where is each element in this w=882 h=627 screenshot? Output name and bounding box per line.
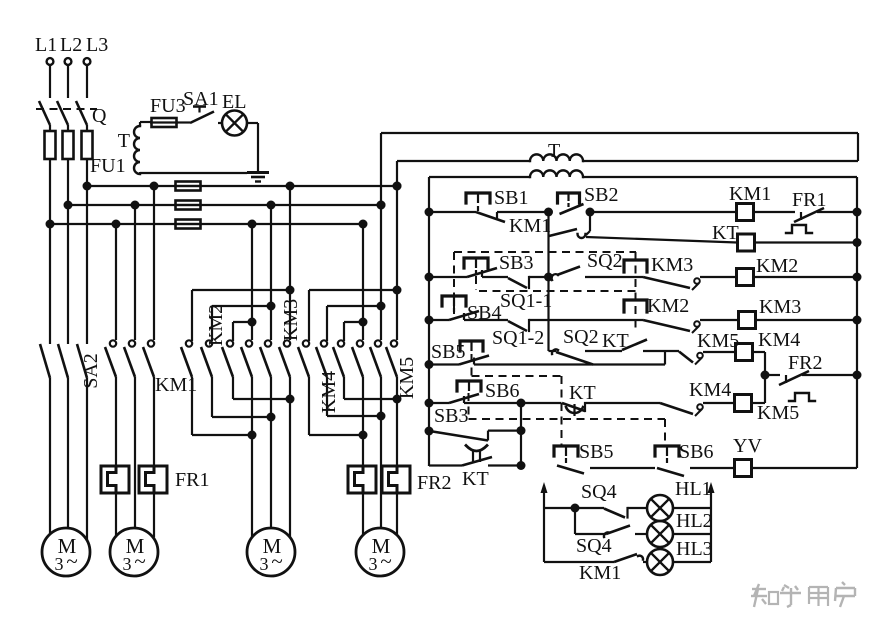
svg-text:T: T (118, 130, 130, 152)
svg-text:KM3: KM3 (651, 254, 693, 276)
svg-text:SA1: SA1 (183, 88, 219, 110)
svg-text:KM5: KM5 (757, 402, 799, 424)
svg-text:L1: L1 (35, 34, 57, 56)
svg-text:~: ~ (66, 549, 77, 573)
svg-text:SB1: SB1 (494, 187, 528, 209)
svg-text:SQ4: SQ4 (581, 481, 617, 503)
svg-text:KM2: KM2 (205, 304, 227, 346)
svg-text:KT: KT (462, 468, 489, 490)
svg-text:FU3: FU3 (150, 95, 186, 117)
svg-text:KM3: KM3 (759, 296, 801, 318)
svg-text:FU1: FU1 (90, 155, 126, 177)
svg-text:3: 3 (369, 554, 378, 574)
svg-text:SB6: SB6 (679, 441, 713, 463)
svg-text:KM4: KM4 (758, 329, 800, 351)
svg-text:L2: L2 (60, 34, 82, 56)
svg-text:3: 3 (260, 554, 269, 574)
svg-text:3: 3 (55, 554, 64, 574)
svg-text:YV: YV (733, 435, 762, 457)
svg-text:L3: L3 (86, 34, 108, 56)
svg-text:KM3: KM3 (280, 299, 302, 341)
svg-text:FR2: FR2 (417, 472, 451, 494)
svg-text:KM4: KM4 (689, 379, 731, 401)
svg-text:KM2: KM2 (647, 295, 689, 317)
svg-text:SB3: SB3 (499, 252, 533, 274)
svg-text:KM1: KM1 (579, 562, 621, 584)
svg-text:FR2: FR2 (788, 352, 822, 374)
svg-text:FR1: FR1 (175, 469, 209, 491)
svg-text:FR1: FR1 (792, 189, 826, 211)
svg-text:HL2: HL2 (676, 510, 713, 532)
svg-text:SQ1-1: SQ1-1 (500, 290, 552, 312)
svg-text:SQ2: SQ2 (587, 250, 623, 272)
svg-text:EL: EL (222, 91, 246, 113)
svg-text:SQ1-2: SQ1-2 (492, 327, 544, 349)
svg-text:HL1: HL1 (675, 478, 712, 500)
svg-text:SQ4: SQ4 (576, 535, 612, 557)
svg-text:KM2: KM2 (756, 255, 798, 277)
svg-text:SB5: SB5 (431, 341, 465, 363)
svg-text:HL3: HL3 (676, 538, 713, 560)
svg-text:KM4: KM4 (318, 371, 340, 413)
svg-text:KM1: KM1 (509, 215, 551, 237)
svg-text:KT: KT (569, 382, 596, 404)
svg-text:SQ2: SQ2 (563, 326, 599, 348)
svg-text:SB3: SB3 (434, 405, 468, 427)
svg-text:~: ~ (380, 549, 391, 573)
svg-text:SB5: SB5 (579, 441, 613, 463)
svg-text:~: ~ (134, 549, 145, 573)
svg-text:KT: KT (602, 330, 629, 352)
svg-text:SB2: SB2 (584, 184, 618, 206)
svg-text:~: ~ (271, 549, 282, 573)
svg-text:T: T (548, 140, 560, 162)
svg-text:KT: KT (712, 222, 739, 244)
svg-text:Q: Q (92, 105, 107, 127)
svg-text:KM5: KM5 (697, 330, 739, 352)
svg-text:KM5: KM5 (396, 357, 418, 399)
svg-text:3: 3 (123, 554, 132, 574)
svg-text:KM1: KM1 (729, 183, 771, 205)
svg-text:SB6: SB6 (485, 380, 519, 402)
svg-text:SA2: SA2 (80, 353, 102, 389)
